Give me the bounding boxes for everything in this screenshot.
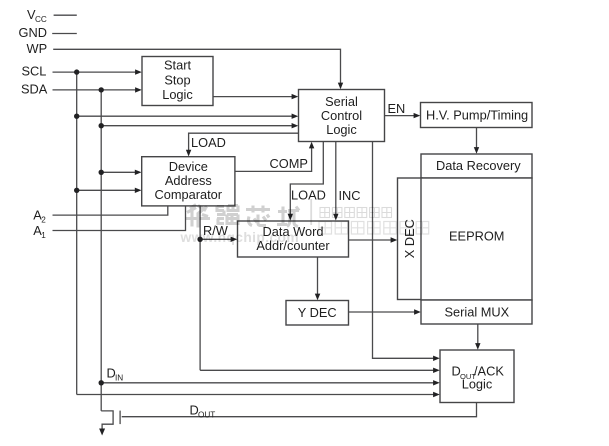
box Y DEC	[286, 301, 349, 326]
arrowhead SDA branch into Serial Control Logic	[292, 123, 299, 128]
box Data Word Addr/counter	[238, 221, 349, 257]
wire GND stub	[52, 33, 77, 35]
wire Serial Control Logic to Dout/ACK Logic	[373, 142, 438, 359]
wire EN to H.V. Pump/Timing	[385, 115, 419, 117]
wire WP to Serial Control Logic	[53, 49, 340, 87]
wire Data Word Addr/counter to X DEC	[349, 239, 396, 241]
svg-text:Address: Address	[165, 173, 212, 188]
box Start Stop Logic	[142, 57, 213, 106]
text Dout/ACK Logic	[452, 364, 505, 392]
svg-text:Logic: Logic	[462, 377, 493, 392]
transistor Q1 drain step	[101, 411, 113, 430]
svg-text:www.hqchip.com: www.hqchip.com	[180, 230, 300, 245]
text Start Stop Logic	[162, 57, 193, 102]
arrowhead Y DEC into Serial MUX	[414, 309, 421, 314]
box H.V. Pump/Timing	[421, 103, 533, 128]
watermark small CJK row1 "华强集团旗下"	[320, 208, 392, 218]
arrowhead serial control into Dout/ACK	[433, 356, 440, 361]
wire SCL branch to Device Address Comparator	[77, 189, 139, 191]
svg-text:LOAD: LOAD	[191, 135, 226, 150]
wire R/W to Data Word Addr/counter	[200, 238, 235, 240]
watermark small CJK row2 "元器件在线商城"	[319, 222, 429, 235]
net label DIN	[107, 366, 124, 383]
arrowhead SDA into Start Stop Logic	[135, 87, 142, 92]
arrowhead EN into H.V. Pump/Timing	[414, 113, 421, 118]
junction SDA branch	[99, 123, 104, 128]
svg-text:1: 1	[41, 231, 46, 240]
transistor Q1 gate bar	[119, 411, 121, 425]
wire A2 to Device Address Comparator	[53, 206, 168, 215]
wire LOAD from Serial Control Logic to Data Word Addr/counter	[290, 142, 323, 219]
arrowhead SCL into Device Address Comparator	[135, 188, 142, 193]
arrowhead SCL into Start Stop Logic	[135, 69, 142, 74]
svg-text:LOAD: LOAD	[291, 188, 326, 203]
arrowhead SCL into Dout/ACK	[433, 392, 440, 397]
box EEPROM	[421, 178, 532, 300]
svg-text:GND: GND	[19, 25, 47, 40]
wire INC from Serial Control Logic to Data Word Addr/counter	[335, 142, 337, 219]
arrowhead COMP up into Serial Control Logic	[309, 142, 314, 149]
pin label A1	[33, 223, 46, 240]
wire A1 to Device Address Comparator	[53, 206, 186, 231]
svg-text:WP: WP	[27, 41, 48, 56]
svg-text:2: 2	[41, 216, 46, 225]
svg-text:Stop: Stop	[164, 73, 190, 88]
arrowhead R/W into Data Word Addr/counter	[231, 237, 238, 242]
ground arrow below transistor	[99, 429, 105, 436]
wire H.V. Pump/Timing to Data Recovery	[476, 128, 478, 152]
wire SDA branch to Serial Control Logic	[101, 125, 296, 127]
wire SCL vertical bus	[76, 72, 78, 394]
junction R/W node	[197, 237, 202, 242]
box Serial MUX	[421, 300, 532, 324]
svg-text:X DEC: X DEC	[402, 219, 417, 258]
svg-text:Logic: Logic	[326, 122, 357, 137]
svg-text:COMP: COMP	[270, 156, 308, 171]
arrowhead SDA into Device Address Comparator	[135, 170, 142, 175]
junction SDA/StartStop	[99, 87, 104, 92]
svg-text:Y DEC: Y DEC	[298, 305, 337, 320]
arrowhead LOAD into Device Address Comparator	[186, 150, 191, 157]
wire R/W vertical from Device Address Comparator	[199, 206, 201, 370]
arrowhead INC into Data Word Addr/counter	[333, 214, 338, 221]
svg-text:Logic: Logic	[162, 87, 193, 102]
wire SCL to Start Stop Logic	[53, 71, 140, 73]
text Serial Control Logic	[321, 94, 362, 137]
wire VCC stub	[54, 14, 77, 16]
arrowhead into Data Recovery	[474, 147, 479, 154]
svg-text:Data Recovery: Data Recovery	[436, 158, 521, 173]
arrowhead R/W into Dout/ACK	[433, 368, 440, 373]
junction DIN node	[99, 380, 104, 385]
wire Start Stop Logic to Serial Control Logic	[213, 96, 296, 98]
wire Data Word Addr/counter to Y DEC	[317, 257, 319, 298]
arrowhead LOAD into Data Word Addr/counter	[288, 214, 293, 221]
svg-text:Serial: Serial	[325, 94, 358, 109]
watermark big CJK "华强芯城" (approximated strokes)	[186, 205, 299, 228]
junction SCL/StartStop	[74, 69, 79, 74]
arrowhead StartStop out into Serial Control Logic	[292, 94, 299, 99]
junction SCL to comparator	[74, 188, 79, 193]
box Dout/ACK Logic	[440, 350, 514, 403]
box Data Recovery	[421, 154, 532, 178]
arrowhead WP down into Serial Control Logic	[338, 83, 343, 90]
wire COMP from Device Address Comparator to Serial Control Logic	[235, 145, 312, 172]
svg-text:SDA: SDA	[21, 82, 48, 97]
svg-text:EN: EN	[388, 101, 406, 116]
wire Y DEC to Serial MUX	[349, 311, 419, 313]
svg-text:H.V. Pump/Timing: H.V. Pump/Timing	[426, 108, 528, 123]
svg-text:Comparator: Comparator	[155, 187, 223, 202]
net label DOUT	[190, 403, 216, 420]
svg-text:Device: Device	[169, 159, 208, 174]
text Device Address Comparator	[155, 159, 223, 202]
junction SDA to comparator	[99, 170, 104, 175]
box X DEC	[398, 178, 423, 300]
svg-text:IN: IN	[115, 374, 123, 383]
wire DIN to Dout/ACK Logic	[101, 382, 437, 384]
svg-text:INC: INC	[339, 188, 361, 203]
arrowhead SCL branch into Serial Control Logic	[292, 114, 299, 119]
wire Serial MUX to Dout/ACK Logic	[477, 324, 479, 348]
svg-text:Serial MUX: Serial MUX	[445, 304, 510, 319]
arrowhead DIN into Dout/ACK	[433, 380, 440, 385]
arrowhead into X DEC	[391, 237, 398, 242]
svg-text:EEPROM: EEPROM	[449, 229, 504, 244]
text Data Word Addr/counter	[256, 224, 330, 253]
svg-text:Start: Start	[164, 57, 191, 72]
junction SCL branch	[74, 114, 79, 119]
svg-text:CC: CC	[35, 15, 47, 24]
wire SCL branch to Serial Control Logic	[77, 115, 296, 117]
wire LOAD from Serial Control Logic to Device Address Comparator	[189, 133, 299, 154]
wire R/W to Dout/ACK Logic	[200, 369, 437, 371]
pin label A2	[33, 208, 46, 225]
svg-text:Control: Control	[321, 108, 362, 123]
wire DOUT from Dout/ACK Logic to output transistor gate	[122, 403, 477, 417]
svg-text:SCL: SCL	[22, 64, 47, 79]
arrowhead into Y DEC	[315, 294, 321, 301]
wire SCL to Dout/ACK Logic	[77, 394, 438, 396]
pin label VCC	[27, 7, 47, 24]
arrowhead Serial MUX into Dout/ACK	[475, 343, 480, 350]
box Serial Control Logic	[299, 90, 385, 142]
wire SDA vertical bus	[100, 90, 102, 411]
box Device Address Comparator	[142, 157, 235, 206]
wire SDA branch to Device Address Comparator	[101, 171, 139, 173]
wire SDA to Start Stop Logic	[53, 89, 140, 91]
watermark divider bar	[310, 199, 312, 225]
svg-text:OUT: OUT	[198, 411, 215, 420]
